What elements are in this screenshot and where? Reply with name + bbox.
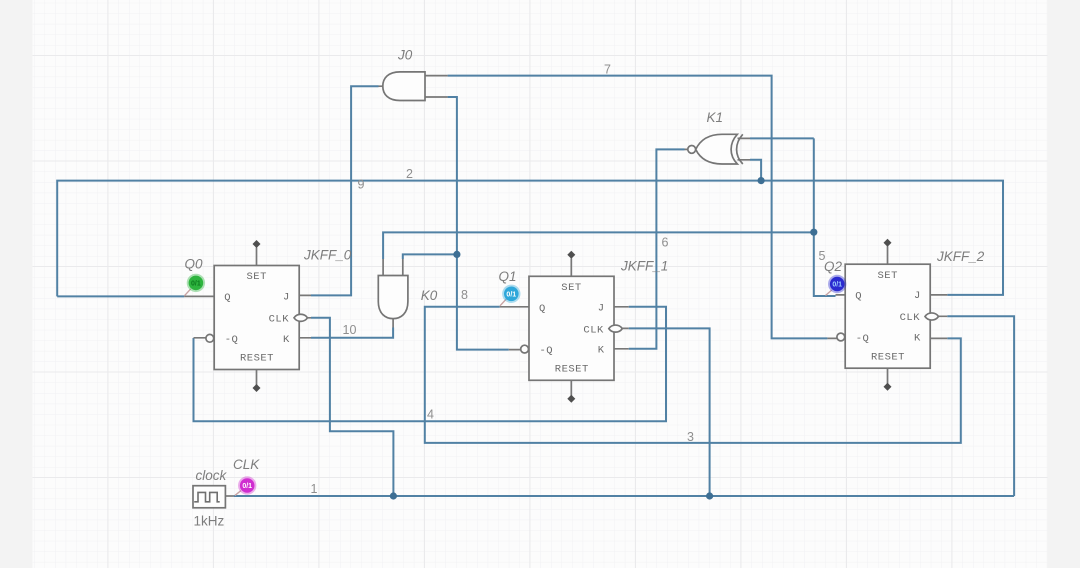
pin stubs JKFF_0 [184, 295, 311, 337]
junction net5 [810, 229, 817, 236]
pin stubs JKFF_1 [500, 307, 629, 350]
wire net1 middle riser to JKFF_1 CLK [629, 328, 710, 496]
flip-flop JKFF_2 [837, 239, 939, 391]
svg-text:CLK: CLK [233, 457, 260, 472]
wire net9 J0 output to JKFF_0 J [311, 86, 379, 295]
svg-text:9: 9 [358, 178, 365, 192]
svg-text:4: 4 [427, 408, 434, 422]
flip-flop JKFF_0 [206, 240, 308, 392]
svg-text:0/1: 0/1 [506, 292, 516, 299]
junction clock-mid [706, 492, 713, 499]
probe Q2 (blue) [826, 275, 847, 296]
svg-text:J0: J0 [397, 47, 413, 62]
junction dots [390, 177, 818, 500]
svg-text:8: 8 [461, 288, 468, 302]
wire net7 J0 upper input from -Q2 [448, 76, 828, 339]
flip-flop JKFF_1 [521, 251, 623, 403]
svg-text:Q0: Q0 [185, 256, 204, 271]
svg-text:JKFF_2: JKFF_2 [936, 249, 985, 264]
junction clock-left [390, 492, 397, 499]
wire net8 J0 lower input / -Q1 vertical [448, 97, 509, 350]
clock source [193, 486, 225, 508]
wire net6 K1 output to JKFF_1 K [629, 149, 685, 348]
svg-text:Q1: Q1 [499, 269, 517, 284]
svg-text:5: 5 [819, 249, 826, 263]
svg-text:1kHz: 1kHz [194, 514, 225, 529]
pin stubs J0 [379, 76, 448, 97]
wire net4 -Q0 to JKFF_1 J [194, 307, 667, 422]
svg-text:3: 3 [687, 430, 694, 444]
pin stubs K0 [383, 259, 403, 328]
svg-text:clock: clock [196, 468, 228, 483]
wire net1 left riser to JKFF_0 CLK [311, 318, 393, 496]
pin stubs K1 [685, 138, 751, 159]
and-gate K0 (rotated, output down) [378, 276, 408, 319]
pin stubs JKFF_2 [827, 295, 947, 339]
wire net1 clock horizontal [234, 495, 1015, 497]
svg-text:JKFF_1: JKFF_1 [620, 259, 668, 274]
svg-text:0/1: 0/1 [832, 282, 842, 289]
junction net8 [453, 251, 460, 258]
probe Q0 (green) [185, 274, 206, 296]
probe Q1 (cyan) [500, 285, 521, 306]
svg-text:0/1: 0/1 [191, 281, 201, 288]
wire net2 long horizontal Q0 feedback [57, 181, 1003, 297]
svg-text:K1: K1 [707, 110, 724, 125]
svg-text:0/1: 0/1 [242, 483, 252, 490]
svg-text:K0: K0 [421, 288, 438, 303]
svg-text:Q2: Q2 [824, 259, 843, 274]
junction net2 K1 [758, 177, 765, 184]
svg-text:JKFF_0: JKFF_0 [303, 248, 352, 263]
wire net5 Q2 to K0 and K1 [383, 138, 835, 296]
svg-text:6: 6 [662, 236, 669, 250]
svg-text:10: 10 [343, 323, 357, 337]
wire net3 Q1 to JKFF_2 K [425, 307, 961, 443]
pin stub clock [225, 495, 233, 497]
probe CLK (magenta) [235, 476, 257, 495]
svg-text:7: 7 [604, 63, 611, 77]
wire net8 branch to K0 right input [403, 254, 457, 259]
svg-text:2: 2 [406, 167, 413, 181]
wire net2 branch to K1 lower input [750, 160, 761, 181]
xnor-gate K1 (mirrored, output left) [688, 134, 743, 164]
wire net1 right riser to JKFF_2 CLK [947, 316, 1014, 496]
wire net10 K0 output to JKFF_0 K [311, 328, 393, 338]
and-gate J0 (mirrored, output left) [383, 72, 425, 101]
svg-text:1: 1 [311, 482, 318, 496]
